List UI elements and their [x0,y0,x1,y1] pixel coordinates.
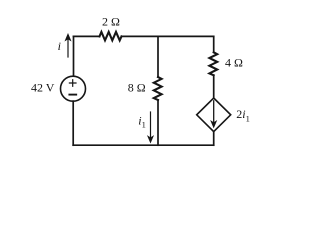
svg-text:8 Ω: 8 Ω [128,81,146,95]
wire: top horizontal right segment (resistor to node B and node C corner) [122,35,214,37]
resistor R3 4-ohm (vertical zigzag) [209,52,217,75]
svg-text:4 Ω: 4 Ω [225,56,243,70]
svg-text:i1: i1 [138,113,146,129]
voltage source V1 42V (circle) [61,76,86,101]
svg-text:2 Ω: 2 Ω [102,15,120,29]
wire: left branch lower (source - down to bottom rail) [72,101,74,145]
current arrow i (upward, top-left) [65,34,71,57]
dependent current source U1 2i1 (diamond) [197,98,231,132]
wire: right branch middle (4-ohm down to dependent source) [213,75,215,98]
dependent source arrow (downward, inside diamond) [211,101,217,128]
current arrow i1 (downward, middle branch) [148,112,154,143]
wire: bottom rail [73,144,214,146]
wire: middle branch lower (8-ohm down to bottom rail) [157,100,159,145]
voltage source minus terminal mark [69,94,76,96]
wire: right branch lower (dependent source to bottom rail) [213,132,215,146]
svg-text:42 V: 42 V [31,80,55,94]
wire: top horizontal left segment (node A to resistor) [74,35,100,37]
wire: left branch upper (node A down to source +) [73,36,75,76]
resistor R1 2-ohm (horizontal zigzag) [100,32,122,41]
resistor R2 8-ohm (vertical zigzag) [154,77,162,100]
wire: middle branch upper (node B down to 8-ohm) [157,36,159,77]
svg-text:i: i [58,39,61,53]
voltage source plus terminal mark [69,80,76,87]
svg-text:2i1: 2i1 [236,107,250,123]
wire: right branch upper (node C down to 4-ohm) [213,36,215,52]
